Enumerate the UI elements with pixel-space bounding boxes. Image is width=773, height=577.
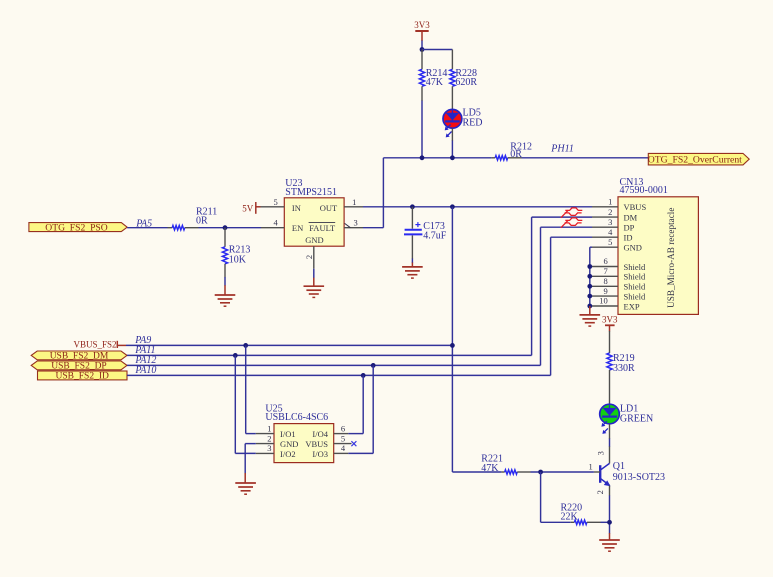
svg-text:2: 2: [267, 433, 271, 443]
net label PA9: [134, 335, 151, 346]
svg-text:Shield: Shield: [624, 262, 646, 272]
svg-text:STMPS2151: STMPS2151: [285, 187, 337, 198]
wire VBUS_FS2 row: [126, 344, 452, 346]
svg-text:5: 5: [608, 237, 612, 247]
wire junction A to R228 branch: [422, 49, 452, 51]
node junction (245.7,345.4): [243, 343, 248, 348]
CN13 pin 7 Shield: [590, 266, 646, 282]
svg-text:OUT: OUT: [320, 203, 338, 213]
LED LD5: [443, 107, 483, 137]
svg-text:IN: IN: [292, 203, 301, 213]
CN13 pin 8 Shield: [590, 276, 646, 292]
CN13 pin 5 GND: [592, 237, 642, 253]
no-connect marker U25 pin5: [351, 441, 356, 446]
power port VBUS_FS2: [73, 339, 126, 349]
port OTG_FS2_PSO: [29, 222, 127, 233]
wire port to R211: [127, 227, 172, 229]
svg-text:47K: 47K: [426, 77, 444, 88]
resistor R228: [450, 68, 478, 88]
svg-text:2: 2: [595, 490, 605, 494]
svg-text:GREEN: GREEN: [620, 413, 653, 424]
svg-text:DP: DP: [624, 223, 635, 233]
U25 pin 3 I/O2: [256, 443, 296, 459]
svg-text:6: 6: [341, 423, 345, 433]
wire R220 to emitter: [587, 521, 610, 523]
wire Q1 emitter down: [609, 486, 611, 534]
svg-text:2: 2: [304, 255, 314, 259]
power 3V3 (bottom): [602, 315, 618, 326]
ground under CN13: [580, 315, 601, 326]
net label PH11: [550, 143, 574, 154]
wire DM riser to CN13 pin2: [532, 217, 592, 355]
wire DM drop to U25 pin3: [235, 355, 256, 453]
svg-text:47590-0001: 47590-0001: [620, 185, 668, 196]
svg-text:9013-SOT23: 9013-SOT23: [613, 472, 665, 483]
op-amp U23 body: [284, 178, 344, 246]
U25 pin 4 I/O3: [312, 443, 348, 459]
U23 pin 5 IN: [261, 197, 301, 213]
CN13 pin 3 DP: [592, 217, 635, 233]
svg-text:4: 4: [341, 443, 346, 453]
svg-text:I/O2: I/O2: [280, 449, 296, 459]
port USB_FS2_DM: [31, 351, 127, 362]
net label PA5: [135, 218, 152, 229]
svg-text:8: 8: [603, 276, 607, 286]
node junction (540.6,472): [538, 470, 543, 475]
U25 pin 2 GND: [256, 433, 299, 449]
wire 3V3 to R219: [609, 325, 611, 353]
wire U25 pin4 to DP row: [348, 365, 373, 453]
port OTG_FS2_OverCurrent: [648, 153, 749, 165]
svg-text:VBUS: VBUS: [624, 202, 647, 212]
wire U25 pin6 to ID row: [348, 375, 363, 433]
wire FAULT riser: [363, 158, 383, 228]
svg-text:10K: 10K: [229, 254, 247, 265]
resistor R220: [561, 503, 587, 525]
svg-text:6: 6: [603, 256, 607, 266]
svg-text:5: 5: [273, 197, 277, 207]
svg-text:USBLC6-4SC6: USBLC6-4SC6: [265, 412, 328, 423]
node junction (452.4,157.8): [450, 155, 455, 160]
node shield junction pin 10: [587, 304, 592, 309]
node junction (422,157.8): [420, 155, 425, 160]
svg-text:USB_Micro-AB receptacle: USB_Micro-AB receptacle: [666, 208, 676, 308]
svg-text:Shield: Shield: [624, 282, 646, 292]
wire 3V3 to junction A: [421, 31, 423, 50]
net label PA12: [134, 355, 156, 366]
svg-text:FAULT: FAULT: [309, 223, 336, 233]
wire overcurrent rail left: [383, 157, 495, 159]
svg-text:330R: 330R: [613, 363, 635, 374]
capacitor C173: [404, 207, 447, 242]
ground under C173: [402, 267, 423, 278]
node junction (373.2,365.4): [371, 363, 376, 368]
node shield junction pin 9: [587, 294, 592, 299]
svg-text:4.7uF: 4.7uF: [423, 231, 447, 242]
wire shield bus to ground: [589, 306, 591, 315]
svg-text:GND: GND: [624, 243, 642, 253]
wire R221 to Q1 base: [517, 471, 594, 473]
resistor R213: [222, 245, 250, 266]
wire CN13 GND/shield bus: [590, 247, 592, 306]
wire R219 to LD1: [609, 370, 611, 404]
net label PA11: [134, 345, 155, 356]
ground under U25: [235, 483, 256, 494]
svg-text:7: 7: [603, 266, 607, 276]
CN13 pin 6 Shield: [590, 256, 646, 272]
connector CN13 body: [618, 177, 698, 314]
node shield junction pin 7: [587, 274, 592, 279]
svg-text:Shield: Shield: [624, 272, 646, 282]
differential pair marker DP/ID: [561, 218, 582, 228]
svg-text:USB_FS2_DP: USB_FS2_DP: [51, 362, 106, 372]
svg-text:PA10: PA10: [134, 365, 156, 376]
U25 pin 1 I/O1: [256, 423, 296, 439]
svg-text:3: 3: [595, 451, 605, 455]
svg-text:22K: 22K: [561, 512, 579, 523]
CN13 pin 1 VBUS: [592, 197, 646, 213]
svg-text:3: 3: [353, 218, 357, 228]
svg-text:1: 1: [589, 462, 593, 472]
svg-text:I/O1: I/O1: [280, 429, 296, 439]
ground under Q1: [599, 540, 620, 551]
svg-text:VBUS_FS2: VBUS_FS2: [73, 339, 116, 349]
svg-text:I/O3: I/O3: [312, 449, 328, 459]
wire LD1 to Q1 collector: [609, 424, 611, 464]
svg-text:4: 4: [608, 227, 613, 237]
wire OUT to VBUS rail: [363, 206, 592, 208]
node junction (363.2,375.4): [361, 373, 366, 378]
svg-text:OTG_FS2_PSO: OTG_FS2_PSO: [45, 222, 107, 233]
svg-text:5: 5: [341, 433, 345, 443]
wire C173 to ground: [411, 235, 413, 267]
wire R214 bottom to rail: [421, 86, 423, 158]
U25 pin 5 VBUS: [305, 433, 351, 449]
svg-text:Shield: Shield: [624, 292, 646, 302]
svg-text:3V3: 3V3: [602, 315, 618, 325]
resistor R219: [607, 353, 635, 374]
svg-text:GND: GND: [280, 439, 298, 449]
LED LD1: [600, 403, 654, 434]
wire U25 GND to ground: [245, 444, 256, 483]
wire R211 to EN: [185, 227, 261, 229]
svg-text:3V3: 3V3: [414, 20, 430, 30]
node junction (452.4,345.4): [450, 343, 455, 348]
wire LD5 cathode to rail: [451, 128, 453, 158]
CN13 pin 4 ID: [592, 227, 632, 243]
svg-text:EN: EN: [292, 223, 303, 233]
svg-text:0R: 0R: [196, 215, 208, 226]
wire R212 to port OTG_FS2_OverCurrent: [508, 157, 649, 159]
node shield junction pin 8: [587, 284, 592, 289]
svg-text:R219: R219: [613, 353, 635, 364]
wire R213 top lead: [224, 228, 226, 247]
wire ID row: [127, 374, 551, 376]
svg-text:4: 4: [273, 218, 278, 228]
transistor Q1: [589, 451, 665, 494]
node A junction (422,49.5): [420, 47, 425, 52]
ground under U23: [304, 286, 325, 297]
wire base row left: [452, 471, 504, 473]
U23 pin 1 OUT: [320, 197, 363, 213]
svg-text:3: 3: [267, 443, 271, 453]
resistor R221: [481, 454, 517, 475]
svg-text:ID: ID: [624, 233, 633, 243]
svg-text:RED: RED: [463, 117, 483, 128]
power 5V: [242, 202, 260, 214]
U23 pin 3 FAULT: [305, 218, 363, 245]
svg-text:OTG_FS2_OverCurrent: OTG_FS2_OverCurrent: [648, 154, 742, 165]
U23 pin 2 GND stub: [304, 246, 314, 286]
port USB_FS2_DP: [31, 361, 127, 372]
CN13 pin 9 Shield: [590, 286, 646, 302]
node junction (225,227.7): [223, 225, 228, 230]
svg-text:5V: 5V: [242, 204, 254, 214]
resistor R211: [172, 206, 217, 230]
wire ID riser to CN13 pin4: [551, 237, 592, 375]
wire VBUS drop x452: [451, 207, 453, 472]
diode-array U25 body: [265, 403, 333, 462]
wire R220 branch: [541, 472, 575, 522]
svg-text:VBUS: VBUS: [305, 439, 328, 449]
svg-text:1: 1: [352, 197, 356, 207]
resistor R212: [495, 142, 532, 161]
svg-text:9: 9: [603, 286, 607, 296]
wire R228 to LD5 anode: [451, 86, 453, 110]
svg-text:47K: 47K: [481, 463, 499, 474]
svg-text:USB_FS2_DM: USB_FS2_DM: [50, 352, 109, 362]
wire R228 top lead: [451, 50, 453, 70]
U25 pin 6 I/O4: [312, 423, 348, 439]
wire VBUS drop to U25 pin1: [246, 345, 256, 433]
node shield junction pin 6: [587, 264, 592, 269]
wire DM row: [127, 354, 532, 356]
U23 pin 4 EN: [261, 218, 303, 233]
resistor R214: [419, 68, 447, 88]
svg-text:3: 3: [608, 217, 612, 227]
svg-text:2: 2: [608, 207, 612, 217]
wire DP row: [127, 364, 541, 366]
svg-text:1: 1: [267, 423, 271, 433]
svg-text:10: 10: [599, 296, 608, 306]
differential pair marker DM/DP: [561, 208, 582, 218]
wire emitter to ground: [609, 533, 611, 540]
node junction (412.4,206.8): [410, 204, 415, 209]
ground under R213: [215, 295, 236, 306]
node junction (235.3,355.4): [233, 353, 238, 358]
CN13 pin 10 EXP: [590, 296, 640, 312]
wire R213 to ground: [224, 264, 226, 295]
svg-text:I/O4: I/O4: [312, 429, 328, 439]
svg-text:1: 1: [608, 197, 612, 207]
port USB_FS2_ID: [38, 371, 128, 381]
node junction (452.4,206.8): [450, 204, 455, 209]
svg-text:620R: 620R: [455, 77, 477, 88]
power 3V3 (top): [414, 20, 430, 31]
net label PA10: [134, 365, 156, 376]
node junction (609.5,522.3): [607, 520, 612, 525]
svg-text:EXP: EXP: [624, 301, 640, 311]
svg-text:GND: GND: [305, 235, 323, 245]
svg-text:PH11: PH11: [550, 143, 574, 154]
svg-text:DM: DM: [624, 213, 638, 223]
svg-text:USB_FS2_ID: USB_FS2_ID: [56, 371, 109, 381]
wire R214 top lead: [421, 50, 423, 70]
wire DP riser to CN13 pin3: [541, 227, 593, 365]
CN13 pin 2 DM: [592, 207, 638, 223]
svg-text:Q1: Q1: [613, 461, 625, 472]
